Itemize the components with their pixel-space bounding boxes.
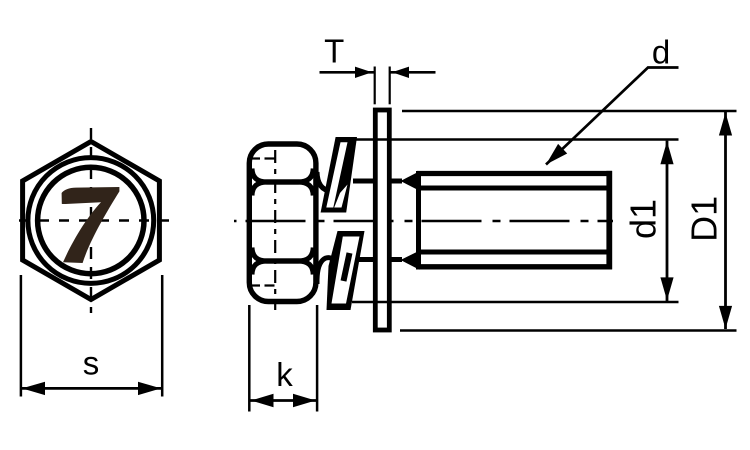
- svg-text:D1: D1: [684, 196, 725, 242]
- svg-text:T: T: [324, 33, 344, 70]
- svg-text:d1: d1: [623, 199, 664, 239]
- svg-text:k: k: [276, 356, 293, 393]
- svg-text:d: d: [652, 34, 670, 71]
- svg-text:s: s: [83, 345, 100, 382]
